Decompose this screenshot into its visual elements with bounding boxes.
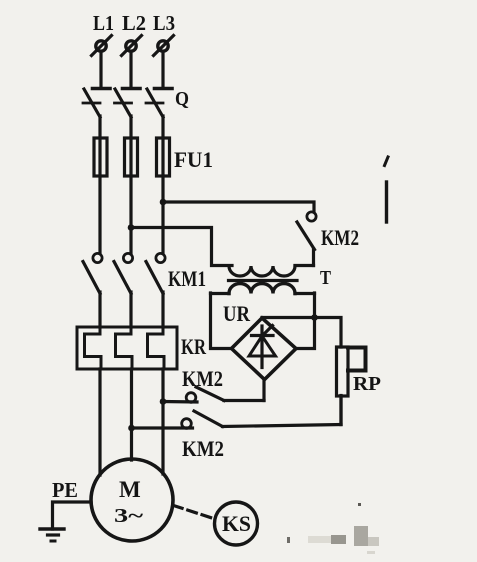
thermal relay KR heater 3	[148, 327, 165, 369]
wire bridge top to RP	[262, 318, 341, 348]
svg-text:Q: Q	[175, 88, 189, 110]
wire Q to motor phase A	[98, 116, 101, 253]
rheostat RP body	[337, 347, 349, 396]
svg-text:L3: L3	[153, 11, 175, 35]
svg-text:PE: PE	[52, 478, 78, 502]
fuse FU1 pole 1	[94, 138, 107, 176]
svg-text:KR: KR	[181, 334, 207, 359]
transformer T primary winding	[229, 266, 295, 276]
ground symbol	[40, 529, 64, 541]
thermal relay KR box	[77, 327, 177, 369]
rectifier UR bridge diamond	[232, 318, 297, 380]
contact KM2 braking lower	[132, 396, 342, 428]
fuse FU1 pole 2	[125, 138, 138, 176]
wire PE	[53, 502, 92, 529]
thermal relay KR heater 2	[116, 327, 133, 369]
wire secondary left	[211, 292, 230, 295]
thermal relay KR heater 1	[85, 327, 102, 369]
wire Q to motor phase B	[129, 116, 132, 253]
switch Q linkage dashed	[83, 102, 168, 105]
wire RP bottom	[339, 396, 342, 425]
wire KR to motor phase A	[98, 369, 101, 475]
wire Q to motor phase C	[161, 116, 164, 252]
motor M circle	[91, 459, 173, 541]
svg-text:KM2: KM2	[182, 436, 224, 461]
svg-text:L1: L1	[93, 11, 114, 35]
wire KR to motor phase C	[161, 369, 164, 474]
terminal L3	[154, 36, 174, 56]
wire L3 to Q	[161, 52, 164, 88]
artifact mark small	[385, 157, 389, 166]
wire KM1 to KR pole 1	[98, 292, 101, 327]
wire KM1 to KR pole 3	[161, 292, 164, 327]
contactor KM1 pole 1	[83, 253, 102, 293]
terminal L1	[92, 36, 112, 56]
rectifier UR diode	[249, 326, 276, 368]
fuse FU1 pole 3	[157, 138, 170, 176]
smudge noise bottom right	[287, 503, 379, 554]
svg-text:FU1: FU1	[174, 147, 213, 172]
switch Q pole 3	[147, 89, 172, 118]
contactor KM1 pole 2	[114, 253, 133, 293]
svg-text:T: T	[320, 267, 332, 289]
contactor KM1 pole 3	[146, 253, 165, 293]
wire L2 to Q	[129, 52, 132, 88]
terminal L2	[122, 36, 142, 56]
transformer T core	[229, 279, 298, 282]
wire phase C to KM2 coil branch	[163, 202, 314, 212]
svg-text:KS: KS	[222, 511, 251, 536]
switch Q pole 2	[115, 89, 140, 118]
wire dashed motor to KS	[174, 506, 216, 520]
transformer T secondary winding	[229, 284, 295, 294]
svg-text:L2: L2	[122, 11, 146, 35]
wire secondary left to bridge left vertex	[211, 293, 232, 349]
contact KM2 (transformer primary)	[297, 212, 316, 266]
wire secondary right to bridge right vertex	[296, 293, 315, 349]
node junction secondary cross	[311, 314, 318, 321]
node junction phase C control tap	[160, 199, 167, 206]
rheostat RP wiper loop	[348, 348, 366, 371]
node junction phase B control tap	[128, 224, 135, 231]
svg-text:KM1: KM1	[168, 266, 206, 291]
contact KM2 braking upper	[163, 380, 264, 403]
svg-text:3~: 3~	[114, 505, 144, 527]
node junction phase B braking tap	[128, 425, 135, 432]
svg-text:KM2: KM2	[321, 225, 359, 250]
wire KR to motor phase B	[130, 369, 133, 460]
wire secondary right	[295, 292, 315, 295]
sensor KS circle	[215, 502, 258, 545]
svg-text:UR: UR	[223, 301, 251, 326]
wire phase B to transformer primary left	[131, 228, 232, 266]
wire primary right	[295, 264, 314, 267]
svg-text:KM2: KM2	[182, 366, 223, 391]
svg-text:M: M	[119, 477, 141, 502]
wire L1 to Q	[99, 52, 102, 88]
switch Q pole 1	[84, 89, 110, 118]
svg-text:RP: RP	[353, 373, 381, 395]
node junction phase C braking tap	[160, 398, 167, 405]
artifact vertical bar	[385, 182, 388, 222]
wire KM1 to KR pole 2	[129, 292, 132, 327]
